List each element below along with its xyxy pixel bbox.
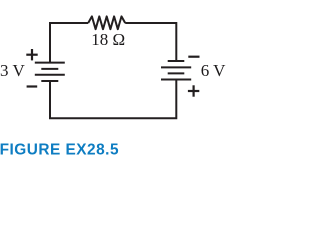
plate short (168, 72, 185, 74)
plate long (161, 66, 191, 68)
wire: left branch up from 3V battery and top run to resistor (50, 23, 88, 63)
svg-text:FIGURE EX28.5: FIGURE EX28.5 (0, 142, 119, 159)
svg-text:3 V: 3 V (0, 61, 25, 80)
plate short (41, 68, 58, 70)
wire: top run from resistor and right branch down to 6V battery (125, 23, 176, 61)
minus sign at 6V battery top (188, 56, 199, 58)
plate short top (-) (168, 60, 185, 62)
wire: bottom run closing the loop (50, 80, 176, 119)
resistor R1 18 ohm zigzag (88, 16, 125, 29)
plus sign at 6V battery bottom (188, 85, 199, 96)
minus sign at 3V battery bottom (27, 85, 38, 87)
plate long bottom (+) (161, 79, 191, 81)
plate long top (+) (35, 62, 65, 64)
battery B2 6V plates (161, 61, 191, 80)
plate short bottom (-) (41, 80, 58, 82)
svg-text:18 Ω: 18 Ω (91, 30, 125, 49)
svg-text:6 V: 6 V (201, 61, 226, 80)
battery B1 3V plates (35, 63, 65, 81)
plus sign at 3V battery top (26, 49, 37, 60)
plate long (35, 74, 65, 76)
